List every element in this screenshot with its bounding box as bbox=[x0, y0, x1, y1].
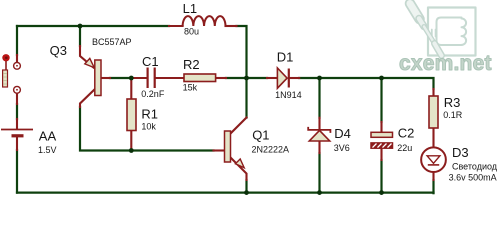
lead Q1 emitter bbox=[231, 158, 247, 181]
node E junction bbox=[317, 76, 322, 81]
lead Q3 emitter bbox=[80, 46, 94, 68]
logo screwdriver blade bbox=[435, 44, 442, 56]
wire left rail top (battery to switch) bbox=[16, 26, 18, 55]
LED D3 triangle bbox=[427, 156, 440, 164]
switch plunger body bbox=[3, 70, 8, 87]
svg-text:2N2222A: 2N2222A bbox=[252, 144, 290, 154]
diode D1 cathode bar bbox=[288, 69, 290, 88]
resistor R2 body bbox=[184, 74, 216, 82]
lead LED bottom bbox=[432, 165, 434, 180]
svg-text:cxem.net: cxem.net bbox=[399, 52, 492, 75]
node H junction bbox=[317, 190, 322, 195]
wire Q3 base to node B bbox=[110, 77, 131, 79]
svg-text:BC557AP: BC557AP bbox=[92, 37, 132, 47]
logo inner circuit loop bbox=[437, 18, 462, 46]
wire node D to D1 bbox=[247, 77, 268, 79]
logo screwdriver neck bbox=[419, 19, 424, 27]
svg-text:C2: C2 bbox=[398, 125, 415, 140]
lead R3 to LED bbox=[432, 128, 434, 165]
capacitor C2 top plate bbox=[371, 132, 393, 137]
node G junction bbox=[244, 190, 249, 195]
logo screwdriver handle bbox=[410, 4, 420, 20]
wire switch to battery bbox=[16, 104, 18, 119]
svg-text:R2: R2 bbox=[183, 57, 200, 72]
resistor R3 body bbox=[429, 96, 438, 128]
transistor Q3 emitter arrow (PNP) bbox=[85, 58, 94, 67]
wire top rail right of L1 bbox=[237, 26, 247, 118]
node C junction bbox=[129, 148, 134, 153]
svg-text:0.1R: 0.1R bbox=[443, 110, 463, 120]
wire Q1 emitter to bottom rail bbox=[245, 180, 247, 193]
lead Q3 collector bbox=[80, 89, 95, 107]
svg-text:Светодиод: Светодиод bbox=[452, 161, 498, 171]
transistor Q1 base bar bbox=[225, 131, 231, 162]
switch contact bottom bbox=[14, 86, 21, 93]
node A junction bbox=[78, 24, 83, 29]
wire C2 top vertical bbox=[380, 78, 382, 122]
lead Q1 base bbox=[214, 149, 225, 151]
lead L1 right bbox=[226, 25, 237, 27]
svg-text:Q1: Q1 bbox=[252, 128, 269, 143]
battery AA 1.5V plate long bbox=[1, 129, 33, 131]
lead R1 bottom bbox=[130, 131, 132, 151]
wire Q3 collector vertical and base line to Q1 bbox=[80, 107, 214, 151]
lead node B down to R1 bbox=[130, 78, 132, 99]
logo capacitor bars bbox=[432, 30, 436, 37]
svg-text:3V6: 3V6 bbox=[334, 143, 350, 153]
wire D4 top vertical bbox=[318, 78, 320, 118]
lead R3 top bbox=[432, 89, 434, 96]
lead D4 top bbox=[318, 118, 320, 130]
wire top rail left bbox=[17, 25, 169, 27]
inductor L1 80u bbox=[183, 16, 226, 26]
transistor Q3 base bar bbox=[95, 60, 101, 96]
lead D1 left bbox=[267, 77, 277, 79]
zener D4 triangle bbox=[309, 130, 329, 141]
lead D1 right bbox=[290, 77, 300, 79]
svg-text:0.2nF: 0.2nF bbox=[141, 89, 165, 99]
wire R2 to node D bbox=[226, 77, 247, 79]
lead D4 bottom bbox=[318, 141, 320, 153]
svg-text:Q3: Q3 bbox=[50, 43, 67, 58]
wire bottom rail bbox=[17, 192, 434, 194]
LED D3 cathode bar bbox=[428, 164, 439, 166]
switch contact top bbox=[14, 62, 21, 69]
svg-text:D3: D3 bbox=[452, 145, 469, 160]
svg-text:1N914: 1N914 bbox=[275, 90, 302, 100]
svg-text:80u: 80u bbox=[184, 26, 199, 36]
logo inductor bumps bbox=[462, 19, 467, 45]
svg-text:R3: R3 bbox=[444, 95, 461, 110]
wire D1 to node E F and R3 corner bbox=[299, 78, 433, 89]
lead C2 bottom bbox=[380, 148, 382, 160]
logo screwdriver shaft bbox=[424, 27, 435, 44]
svg-text:3.6v 500mA: 3.6v 500mA bbox=[449, 173, 497, 183]
lead C2 top bbox=[380, 122, 382, 132]
svg-text:R1: R1 bbox=[141, 106, 158, 121]
lead battery bottom bbox=[16, 137, 18, 151]
svg-text:1.5V: 1.5V bbox=[38, 145, 57, 155]
capacitor C2 bottom plate (hatched) bbox=[371, 143, 393, 148]
node D junction bbox=[244, 76, 249, 81]
logo pad square bbox=[428, 8, 476, 56]
lead Q1 collector bbox=[231, 118, 247, 134]
svg-text:D1: D1 bbox=[277, 49, 294, 64]
switch SW1 knob bbox=[2, 54, 9, 61]
svg-text:10k: 10k bbox=[141, 121, 156, 131]
svg-text:AA: AA bbox=[39, 129, 57, 144]
cxem.net logo watermark bbox=[399, 4, 492, 76]
LED D3 circle bbox=[421, 147, 446, 172]
transistor Q1 emitter arrow (NPN) bbox=[235, 159, 244, 168]
battery plate short thick bbox=[12, 134, 24, 137]
node B junction bbox=[129, 76, 134, 81]
lead battery top bbox=[16, 119, 18, 129]
lead node B to C1 bbox=[131, 77, 146, 79]
lead C1 right to R2 bbox=[156, 77, 184, 79]
wire D4 bottom vertical bbox=[318, 153, 320, 193]
lead R2 right bbox=[216, 77, 226, 79]
lead L1 left bbox=[169, 25, 183, 27]
lead switch top bbox=[16, 55, 18, 62]
zener D4 cathode bar bbox=[308, 127, 330, 133]
wire Q3 emitter vertical bbox=[79, 26, 81, 46]
wire C2 bottom vertical bbox=[380, 160, 382, 193]
wire battery to bottom rail bbox=[16, 150, 18, 193]
node I junction bbox=[379, 190, 384, 195]
resistor R1 body bbox=[127, 99, 136, 131]
svg-text:C1: C1 bbox=[142, 54, 159, 69]
lead switch bottom bbox=[16, 94, 18, 105]
capacitor C1 plates bbox=[148, 68, 155, 89]
svg-text:D4: D4 bbox=[334, 126, 351, 141]
lead Q3 base bbox=[101, 77, 110, 79]
node F junction bbox=[379, 76, 384, 81]
wire LED to bottom rail bbox=[432, 180, 434, 193]
diode D1 triangle bbox=[277, 68, 287, 88]
svg-text:L1: L1 bbox=[183, 1, 197, 16]
svg-text:15k: 15k bbox=[183, 83, 198, 93]
svg-text:22u: 22u bbox=[397, 143, 412, 153]
switch plunger shaft bbox=[5, 61, 7, 70]
